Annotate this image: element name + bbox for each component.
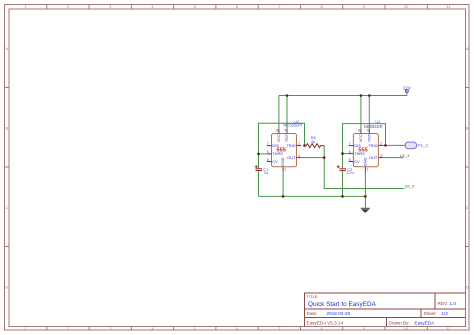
svg-text:B: B <box>466 126 469 131</box>
junction top rail VCC U1 <box>360 94 363 97</box>
svg-text:2: 2 <box>380 142 382 146</box>
U2 pin 4 RST <box>286 129 288 134</box>
junction dots <box>257 94 387 198</box>
svg-text:P1_2: P1_2 <box>418 143 429 148</box>
op-amp U1 body <box>353 134 378 167</box>
wire U2 OUT <box>301 157 324 159</box>
connector pin P1_2 <box>405 142 429 149</box>
svg-text:OUT: OUT <box>287 155 296 160</box>
svg-text:U2_3: U2_3 <box>405 184 415 189</box>
svg-text:C: C <box>466 205 469 210</box>
svg-text:Drawn By:: Drawn By: <box>389 320 410 325</box>
svg-text:2: 2 <box>298 142 300 146</box>
wire U1 TRIG to connector <box>383 144 404 146</box>
svg-text:D: D <box>466 285 469 290</box>
wire 12V stem <box>406 92 408 96</box>
U2 pin 8 VCC <box>278 129 280 134</box>
svg-text:5: 5 <box>267 158 269 162</box>
wire U1 THRS <box>343 153 349 155</box>
resistor R6 <box>305 144 325 148</box>
svg-text:CV: CV <box>272 159 278 164</box>
svg-text:1u: 1u <box>264 170 268 175</box>
svg-text:TRIG: TRIG <box>368 143 377 148</box>
svg-text:8: 8 <box>358 129 360 133</box>
op-amp U2 body <box>272 134 297 167</box>
svg-text:GND: GND <box>280 157 285 166</box>
svg-text:B: B <box>5 126 8 131</box>
svg-text:1: 1 <box>284 167 286 171</box>
svg-text:5: 5 <box>349 158 351 162</box>
svg-text:OUT: OUT <box>369 155 378 160</box>
U1 pin 8 VCC <box>360 129 362 134</box>
U1 pin numbers <box>349 129 382 172</box>
wire C1 to bottom rail <box>258 171 260 196</box>
C1 plus sign <box>255 165 258 168</box>
capacitor C2 (polarized) <box>340 169 347 171</box>
svg-text:REV:: REV: <box>438 301 449 306</box>
U1 pin 3 OUT <box>378 157 383 159</box>
wire U2 THRS <box>259 153 267 155</box>
svg-text:2018-03-29: 2018-03-29 <box>327 311 351 316</box>
svg-text:EasyEDA V5.3.14: EasyEDA V5.3.14 <box>307 320 344 325</box>
junction C2 at rail <box>341 195 344 198</box>
svg-text:555: 555 <box>358 147 367 153</box>
wire resistor node down and right rail to net U2_3 <box>324 146 404 189</box>
svg-text:TRIG: TRIG <box>286 143 295 148</box>
svg-text:10: 10 <box>404 4 409 9</box>
svg-text:C: C <box>5 205 8 210</box>
U1 pin 4 RST <box>368 129 370 134</box>
svg-text:3: 3 <box>380 154 382 158</box>
wire U1 TRIG-THRS feedback <box>343 124 386 154</box>
svg-text:10: 10 <box>404 326 409 331</box>
wire U2 GND vertical <box>282 172 284 197</box>
wire U1 left lower to C2 <box>342 154 344 169</box>
left ticks <box>5 88 10 247</box>
U2 pin numbers <box>267 129 300 172</box>
svg-text:7: 7 <box>267 142 269 146</box>
U1 pin 7 DIS <box>349 145 354 147</box>
U1 pin 1 GND <box>364 167 366 172</box>
wire top power rail <box>279 95 407 97</box>
junction U1 TRIG node <box>384 144 387 147</box>
svg-text:A: A <box>5 46 8 51</box>
wire bottom rail <box>259 195 366 197</box>
U2 pin 1 GND <box>282 167 284 172</box>
svg-text:NE555DR: NE555DR <box>284 123 303 128</box>
svg-text:7: 7 <box>349 142 351 146</box>
svg-text:555: 555 <box>277 147 286 153</box>
svg-text:D: D <box>5 285 8 290</box>
right ticks <box>466 88 470 247</box>
svg-text:1.0: 1.0 <box>450 301 457 306</box>
svg-text:12V: 12V <box>403 85 412 90</box>
junction top rail RST U1 <box>368 94 371 97</box>
svg-text:2.2u: 2.2u <box>346 170 354 175</box>
U1 pin 2 TRIG <box>378 144 383 146</box>
top ticks <box>47 5 428 10</box>
U2 pin 6 THRS <box>267 153 272 155</box>
svg-text:4: 4 <box>284 129 286 133</box>
svg-text:3: 3 <box>298 154 300 158</box>
junction U1 GND at rail <box>364 195 367 198</box>
svg-text:GND: GND <box>363 157 368 166</box>
U2 pin names <box>272 133 296 166</box>
svg-text:VCC: VCC <box>276 134 281 142</box>
U2 pin 7 DIS <box>267 145 272 147</box>
junction U2 TRIG node <box>303 144 306 147</box>
svg-text:VCC: VCC <box>358 134 363 142</box>
svg-text:RST: RST <box>367 133 372 141</box>
svg-text:1/2: 1/2 <box>442 311 449 316</box>
junction U2 THRS node <box>257 153 260 156</box>
wire U1 VCC vertical <box>360 96 362 130</box>
svg-text:CV: CV <box>354 159 360 164</box>
power flag 12V <box>403 85 412 92</box>
svg-text:NE555DR: NE555DR <box>364 124 383 129</box>
svg-text:A: A <box>466 46 469 51</box>
svg-text:6: 6 <box>349 150 351 154</box>
svg-text:RST: RST <box>284 133 289 141</box>
svg-text:U1_3: U1_3 <box>400 153 410 158</box>
svg-text:Sheet:: Sheet: <box>424 311 437 316</box>
svg-text:8: 8 <box>276 129 278 133</box>
U2 pin 5 CV <box>267 161 272 163</box>
junction U1 THRS node <box>341 152 344 155</box>
bottom ticks <box>47 327 428 331</box>
wire U2 VCC vertical <box>278 96 280 130</box>
junction U2 OUT node <box>323 156 326 159</box>
U1 pin 5 CV <box>349 161 354 163</box>
wire U1 OUT to net U1_3 <box>383 157 403 159</box>
wire U1 RST vertical <box>368 96 370 130</box>
wire U2 TRIG-THRS feedback <box>259 123 305 154</box>
junction top rail RST U2 <box>286 94 289 97</box>
wire U2 left lower to C1 <box>258 154 260 168</box>
svg-text:Date:: Date: <box>307 311 318 316</box>
wire U1 GND vertical to ground <box>364 172 366 209</box>
U2 pin 3 OUT <box>297 157 302 159</box>
svg-text:1: 1 <box>367 167 369 171</box>
ground <box>361 208 370 212</box>
svg-text:Quick Start to EasyEDA: Quick Start to EasyEDA <box>308 301 377 308</box>
wire C2 to bottom rail <box>342 171 344 196</box>
svg-text:EasyEDA: EasyEDA <box>415 320 436 325</box>
svg-text:TITLE:: TITLE: <box>307 294 319 299</box>
U1 pin 6 THRS <box>349 153 354 155</box>
wire U2 RST vertical <box>286 96 288 130</box>
title block <box>305 293 466 327</box>
junction U2 GND at rail <box>282 195 285 198</box>
capacitor C1 (polarized) <box>256 169 263 171</box>
U1 pin names <box>354 133 378 166</box>
U2 pin 2 TRIG <box>297 145 302 147</box>
C2 plus sign <box>337 165 340 168</box>
svg-text:2k: 2k <box>311 139 315 144</box>
svg-text:6: 6 <box>267 150 269 154</box>
